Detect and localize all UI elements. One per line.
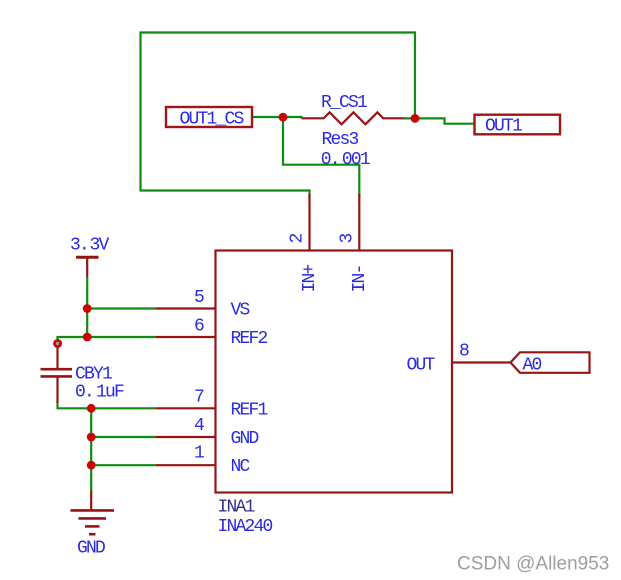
svg-text:VS: VS (231, 301, 250, 321)
ground symbol bar4 (89, 533, 96, 536)
wire pin1 NC (91, 464, 156, 466)
wire resistor right to junction to OUT1 (404, 118, 475, 123)
svg-text:2: 2 (288, 234, 308, 244)
svg-text:CBY1: CBY1 (75, 364, 112, 384)
svg-text:REF2: REF2 (231, 329, 268, 349)
ground symbol bar2 (79, 517, 107, 520)
junction dot pin1 (87, 461, 96, 470)
svg-text:REF1: REF1 (231, 400, 268, 420)
svg-text:GND: GND (231, 429, 259, 449)
junction dot pin6 (83, 333, 92, 342)
ground symbol bar3 (85, 525, 100, 528)
svg-text:0.1uF: 0.1uF (75, 383, 124, 403)
svg-text:5: 5 (194, 288, 204, 308)
wire pin4 GND (91, 436, 156, 438)
wire top loop from IN+ to right junction (141, 33, 416, 192)
wire capacitor top branch (56, 336, 58, 344)
wire gnd vertical (90, 408, 92, 492)
svg-text:Res3: Res3 (322, 130, 359, 150)
wire pin5 VS (87, 307, 156, 309)
svg-text:8: 8 (459, 342, 469, 362)
pin 4 GND lead (156, 436, 216, 438)
op-amp U1 INA240 body (216, 251, 453, 493)
net label box OUT1 (475, 115, 561, 135)
svg-text:CSDN @Allen953: CSDN @Allen953 (457, 554, 609, 575)
capacitor CBY1 top lead (56, 343, 58, 369)
svg-text:INA240: INA240 (218, 517, 273, 537)
wire loop bottom to pin2 (140, 191, 310, 198)
wire capacitor bottom to pin7 REF1 (58, 402, 157, 408)
svg-text:6: 6 (194, 316, 204, 336)
capacitor CBY1 top plate (41, 368, 73, 371)
svg-text:INA1: INA1 (218, 498, 255, 518)
power symbol 3.3V bar (76, 256, 99, 259)
svg-text:OUT1: OUT1 (485, 117, 522, 137)
svg-text:3.3V: 3.3V (70, 236, 110, 256)
svg-text:A0: A0 (523, 355, 542, 375)
junction dot at OUT1_CS branch (279, 113, 288, 122)
svg-text:R_CS1: R_CS1 (321, 93, 367, 113)
resistor R_CS1 (302, 112, 405, 124)
power symbol 3.3V stem (86, 257, 88, 277)
junction dot pin4 (87, 433, 96, 442)
svg-text:3: 3 (338, 234, 358, 244)
junction dot pin7 (87, 404, 96, 413)
svg-text:NC: NC (231, 457, 251, 477)
svg-text:0.001: 0.001 (321, 150, 370, 170)
svg-text:7: 7 (194, 387, 204, 407)
capacitor hotspot marker (53, 339, 62, 348)
wire junction to IN- drop (283, 117, 359, 197)
pin 7 REF1 lead (156, 407, 216, 409)
svg-text:OUT1_CS: OUT1_CS (180, 109, 244, 129)
svg-text:IN-: IN- (350, 265, 370, 292)
port A0 (511, 352, 590, 373)
wire pin6 REF2 (58, 336, 157, 338)
ground symbol bar1 (71, 509, 115, 512)
capacitor CBY1 bottom lead (56, 376, 58, 403)
svg-text:4: 4 (194, 416, 204, 436)
wire 3.3V rail down (86, 277, 88, 338)
svg-text:IN+: IN+ (300, 264, 320, 292)
ground symbol lead (90, 491, 92, 510)
svg-text:OUT: OUT (407, 355, 436, 375)
junction dot pin5 (83, 304, 92, 313)
pin 8 OUT lead (452, 361, 511, 363)
pin 1 NC lead (156, 464, 216, 466)
capacitor CBY1 bottom plate (41, 375, 73, 378)
pin 5 VS lead (156, 307, 216, 309)
svg-text:1: 1 (194, 444, 204, 464)
junction dot at OUT1 branch (411, 114, 420, 123)
pin 3 IN- lead (358, 194, 360, 251)
svg-text:GND: GND (77, 539, 105, 559)
pin 2 IN+ lead (308, 194, 310, 251)
pin 6 REF2 lead (156, 336, 216, 338)
wire OUT1_CS to junction (252, 117, 302, 118)
net label box OUT1_CS (166, 107, 252, 127)
